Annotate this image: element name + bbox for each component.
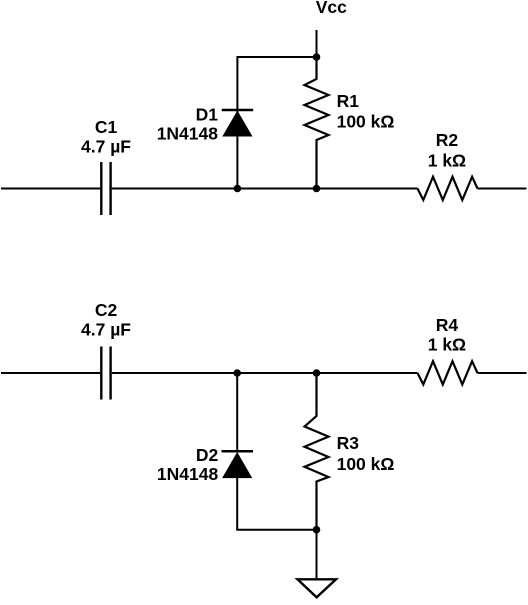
svg-text:R3: R3 — [337, 433, 360, 453]
svg-text:R4: R4 — [436, 315, 459, 335]
resistor R4 label — [428, 315, 466, 354]
resistor R2 label — [428, 130, 466, 170]
svg-text:4.7 µF: 4.7 µF — [81, 320, 131, 340]
svg-text:C2: C2 — [95, 300, 118, 320]
node junction dot at R3 top — [313, 369, 321, 377]
svg-text:R2: R2 — [436, 130, 459, 150]
wire: ground node down to ground symbol — [316, 530, 318, 578]
wire: left input to C1 (top row) — [1, 188, 100, 190]
diode D1 cathode bar — [222, 109, 254, 112]
wire: left input to C2 (bottom row) — [1, 372, 100, 374]
node junction dot at ground — [313, 526, 321, 534]
capacitor C2 label — [81, 300, 131, 340]
svg-text:D1: D1 — [196, 105, 219, 125]
svg-text:1N4148: 1N4148 — [157, 123, 219, 143]
Vcc lead — [316, 30, 318, 57]
capacitor C1 plates — [101, 162, 110, 215]
resistor R3 label — [337, 433, 395, 474]
svg-text:Vcc: Vcc — [316, 0, 347, 17]
svg-text:R1: R1 — [337, 91, 360, 111]
wire: D2 cathode from bottom row down — [236, 373, 238, 451]
node junction dot at R1 bottom — [313, 185, 321, 193]
diode D2 label — [157, 445, 219, 484]
wire: R2 to right edge (top row) — [478, 188, 527, 190]
diode D2 cathode bar — [222, 450, 254, 453]
resistor R1 (vertical, Vcc node to top row) — [305, 57, 329, 189]
svg-text:1 kΩ: 1 kΩ — [428, 334, 466, 354]
wire: C1 to R2 (top row main net) — [112, 188, 418, 190]
resistor R4 (horizontal, bottom row) — [418, 361, 478, 384]
wire: R4 to right edge (bottom row) — [478, 372, 527, 374]
node junction dot at D2 top — [233, 369, 241, 377]
resistor R3 (vertical, bottom row to ground node) — [305, 373, 329, 530]
diode D1 triangle — [224, 112, 252, 136]
resistor R2 (horizontal, top row) — [418, 177, 478, 200]
wire: D2 anode down and over to ground node — [237, 477, 316, 529]
svg-text:1 kΩ: 1 kΩ — [428, 151, 466, 171]
node junction dot at D1 bottom — [234, 185, 242, 193]
wire: D1 cathode up and over to Vcc node — [237, 57, 316, 189]
svg-text:C1: C1 — [95, 117, 118, 137]
diode D2 triangle — [223, 454, 251, 478]
diode D1 label — [157, 105, 219, 144]
svg-text:1N4148: 1N4148 — [157, 464, 219, 484]
node junction dot at Vcc — [313, 53, 321, 61]
capacitor C1 label — [81, 117, 131, 157]
svg-text:100 kΩ: 100 kΩ — [337, 111, 395, 131]
svg-text:D2: D2 — [196, 445, 219, 465]
wire: C2 to R4 (bottom row main net) — [112, 372, 418, 374]
resistor R1 label — [337, 91, 395, 131]
svg-text:4.7 µF: 4.7 µF — [81, 137, 131, 157]
ground — [298, 579, 337, 597]
svg-text:100 kΩ: 100 kΩ — [337, 454, 395, 474]
capacitor C2 plates — [101, 347, 110, 400]
